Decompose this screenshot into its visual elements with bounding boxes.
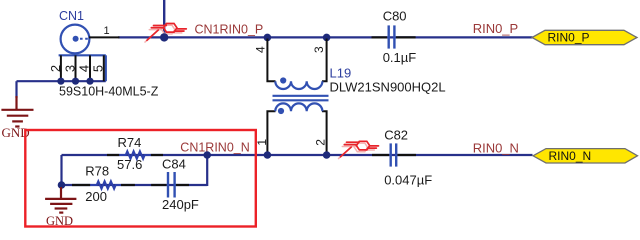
svg-text:RIN0_N: RIN0_N <box>549 149 592 163</box>
svg-text:C82: C82 <box>384 128 408 143</box>
L19 pin 2 lead <box>322 111 327 153</box>
resistor R78 leads <box>72 184 90 186</box>
wire: CN1 bus to GND vertical <box>15 81 17 98</box>
red highlight box <box>25 130 256 227</box>
junction C84 branch <box>203 151 211 159</box>
svg-text:3: 3 <box>312 46 326 53</box>
L19 pin 1 lead <box>267 111 275 153</box>
svg-text:RIN0_N: RIN0_N <box>473 140 519 155</box>
L19 top winding polarity dot <box>280 77 286 83</box>
svg-text:2: 2 <box>314 139 328 146</box>
svg-text:4: 4 <box>76 65 91 72</box>
differential pair directive marker (bottom) <box>339 141 379 158</box>
svg-text:CN1RIN0_N: CN1RIN0_N <box>180 141 249 155</box>
capacitor C84 leads <box>151 184 166 186</box>
junction L19 pin4 <box>264 34 272 42</box>
svg-text:0.1µF: 0.1µF <box>383 50 417 65</box>
ground in-box power symbol <box>45 187 76 213</box>
svg-text:DLW21SN900HQ2L: DLW21SN900HQ2L <box>330 79 446 94</box>
wire: bottom net CN1RIN0_N horizontal <box>62 154 533 156</box>
junction L19 pin3 <box>323 34 331 42</box>
wire: C84 branch vertical up <box>206 155 208 186</box>
svg-text:59S10H-40ML5-Z: 59S10H-40ML5-Z <box>59 85 159 99</box>
svg-text:CN1: CN1 <box>59 9 84 23</box>
svg-text:RIN0_P: RIN0_P <box>548 31 590 45</box>
port RIN0_N <box>533 149 638 163</box>
svg-text:CN1RIN0_P: CN1RIN0_P <box>195 23 264 37</box>
wire: red-box left vertical <box>60 155 62 186</box>
differential pair directive marker (top) <box>145 24 186 43</box>
junction L19 pin1 <box>264 151 272 159</box>
svg-text:R74: R74 <box>118 135 142 150</box>
L19 bottom winding polarity dot <box>278 108 284 114</box>
resistor R78 body <box>90 181 121 189</box>
L19 core lines <box>273 95 329 97</box>
CN1 pin 4 lead <box>89 55 91 81</box>
L19 top winding <box>275 81 322 89</box>
junction red-box left <box>58 181 66 189</box>
CN1 pin 2 lead <box>60 55 62 81</box>
junction CN1 pin3 <box>72 78 79 85</box>
capacitor C80 plates <box>389 25 395 48</box>
capacitor C82 leads <box>372 154 389 156</box>
junction L19 pin2 <box>323 151 331 159</box>
svg-text:3: 3 <box>62 65 77 72</box>
CN1 pin 3 lead <box>75 55 77 81</box>
L19 pin 3 lead <box>322 39 327 82</box>
svg-text:2: 2 <box>48 65 63 72</box>
wire: vertical stub to top edge <box>163 0 165 37</box>
capacitor C80 leads <box>372 36 388 38</box>
CN1 pin 5 lead <box>103 55 105 81</box>
capacitor C84 plates <box>168 172 175 198</box>
svg-text:4: 4 <box>254 46 268 53</box>
ground left power symbol <box>1 96 33 127</box>
svg-text:RIN0_P: RIN0_P <box>473 21 519 36</box>
L19 pin 4 lead <box>267 39 275 82</box>
junction CN1 pin2 <box>57 78 64 85</box>
svg-text:5: 5 <box>90 65 105 72</box>
resistor R74 leads <box>107 154 119 156</box>
svg-text:240pF: 240pF <box>162 197 199 212</box>
port RIN0_P <box>532 30 637 44</box>
svg-text:C84: C84 <box>162 157 186 172</box>
junction top vertical stub <box>160 33 168 41</box>
connector CN1 circle body <box>61 25 90 54</box>
L19 bottom winding <box>275 103 322 111</box>
wire: R78/C84 lower horizontal <box>62 184 208 186</box>
svg-text:0.047µF: 0.047µF <box>384 172 432 187</box>
svg-text:200: 200 <box>85 189 107 204</box>
CN1 shield box <box>59 55 106 81</box>
svg-text:GND: GND <box>46 214 73 228</box>
wire: CN1 pins bus horizontal <box>17 80 106 82</box>
CN1 pin 1 lead <box>89 36 120 38</box>
junction CN1 pin4 <box>86 78 93 85</box>
svg-text:C80: C80 <box>383 9 407 24</box>
svg-text:1: 1 <box>104 25 110 37</box>
svg-text:57.6: 57.6 <box>117 157 142 172</box>
resistor R74 body <box>119 151 151 159</box>
wire: top net CN1RIN0_P horizontal <box>118 36 533 38</box>
capacitor C82 plates <box>391 143 397 166</box>
common-mode choke L19 <box>267 39 328 154</box>
svg-text:R78: R78 <box>85 163 109 178</box>
